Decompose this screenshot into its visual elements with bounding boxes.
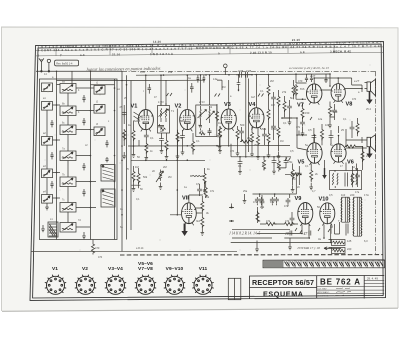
tuner block — [40, 71, 132, 251]
grid resistors horizontal — [265, 222, 277, 225]
svg-text:0,1: 0,1 — [136, 198, 140, 201]
speaker LS2 ground arrow — [366, 147, 372, 158]
resistor — [165, 139, 168, 151]
tube V9 — [298, 202, 313, 225]
capacitor — [122, 111, 127, 117]
wire into VII — [170, 160, 203, 215]
svg-text:3.MECH. R.42: 3.MECH. R.42 — [330, 49, 351, 53]
extra wires right of V10 — [335, 222, 340, 234]
svg-text:J 14 K 8.2 R 14. 14. 5: J 14 K 8.2 R 14. 14. 5 — [229, 232, 261, 236]
ground — [256, 153, 260, 160]
svg-text:2M: 2M — [270, 79, 274, 83]
ground — [159, 183, 163, 190]
svg-text:125: 125 — [347, 239, 352, 243]
wave switch wafer A — [101, 165, 115, 182]
V3 V4 coupling — [218, 126, 252, 156]
border frame outer — [30, 42, 386, 301]
ground — [122, 152, 126, 159]
trimmer T5 — [94, 86, 105, 95]
trimmer T6 — [94, 105, 105, 114]
mains selector winding — [332, 240, 346, 254]
svg-text:V10: V10 — [319, 197, 329, 203]
capacitor — [180, 134, 185, 140]
resistor — [218, 126, 221, 138]
input terminal dots — [231, 207, 233, 209]
ground — [238, 168, 242, 175]
svg-text:0,1: 0,1 — [305, 164, 309, 168]
ground — [291, 186, 295, 193]
band coil box row 1 — [60, 84, 76, 94]
band coil box row 6 — [60, 203, 76, 213]
tuner bus vertical 1 — [56, 79, 58, 240]
trimmer T7 — [94, 127, 105, 136]
resistor — [267, 108, 270, 120]
svg-text:47a: 47a — [270, 201, 275, 204]
AVC bus 2 — [128, 145, 290, 147]
ground — [165, 153, 169, 160]
capacitor — [329, 134, 334, 140]
svg-text:47k: 47k — [178, 136, 183, 140]
svg-text:12a: 12a — [318, 118, 323, 121]
svg-text:1M: 1M — [271, 103, 275, 107]
ground — [328, 121, 332, 128]
V4 output components — [250, 127, 267, 159]
svg-text:20k: 20k — [205, 195, 210, 199]
border frame inner — [33, 44, 384, 298]
svg-text:6,3: 6,3 — [364, 239, 368, 243]
svg-text:2ª FI: 2ª FI — [198, 100, 205, 104]
svg-text:17m: 17m — [364, 193, 369, 197]
signature squiggles — [334, 288, 351, 296]
ground — [243, 197, 247, 204]
V9 V10 wires down — [257, 224, 331, 238]
V5 V6 top components — [299, 131, 307, 136]
tube V10 — [320, 203, 335, 226]
chassis dash-dot boundary top — [31, 71, 383, 255]
heater wires — [329, 224, 349, 248]
junction dots pass — [121, 73, 363, 243]
density pass: grid risers and small parts — [148, 74, 365, 252]
resistor — [123, 129, 126, 141]
svg-text:4a7: 4a7 — [251, 96, 256, 99]
under V3 parts — [215, 110, 218, 122]
value 18 47 with caps — [290, 231, 311, 236]
svg-text:1M: 1M — [262, 164, 265, 167]
capacitor — [270, 197, 275, 203]
wire bus to V7 grid — [296, 74, 332, 90]
value labels small italic — [158, 69, 360, 104]
under can1 parts — [159, 137, 164, 143]
svg-text:470: 470 — [230, 150, 235, 153]
svg-text:25k: 25k — [260, 205, 265, 209]
svg-text:50k: 50k — [262, 127, 267, 131]
capacitor — [297, 171, 302, 177]
capacitor — [274, 197, 279, 203]
V6 right parts — [361, 150, 364, 162]
svg-text:110: 110 — [341, 193, 346, 197]
ground — [236, 149, 240, 156]
volume control cluster — [282, 80, 295, 125]
svg-text:V9–V10: V9–V10 — [166, 266, 184, 272]
resistor under tuner — [91, 240, 94, 255]
ground — [309, 183, 313, 190]
svg-text:ESQUEMA: ESQUEMA — [263, 289, 303, 298]
resistor — [345, 145, 357, 148]
resistor — [201, 216, 204, 228]
ground — [41, 225, 45, 232]
svg-text:0,1: 0,1 — [238, 165, 242, 168]
wire V1 plate up — [146, 75, 257, 109]
resistor — [250, 131, 253, 143]
ground — [218, 143, 222, 150]
speaker LS1 ground arrow — [366, 92, 372, 105]
top revision table rule — [36, 47, 383, 51]
svg-text:3k3: 3k3 — [196, 220, 201, 223]
resistor — [283, 100, 286, 112]
capacitor — [239, 129, 244, 135]
tuner grounds — [45, 203, 49, 210]
svg-text:0,05: 0,05 — [140, 71, 145, 74]
resistor — [267, 84, 270, 96]
capacitor — [286, 198, 291, 204]
svg-text:APROBADO: APROBADO — [318, 291, 330, 294]
slash marks 1uF — [167, 93, 313, 161]
ground — [301, 129, 305, 136]
svg-text:1M: 1M — [292, 178, 295, 181]
svg-text:150: 150 — [333, 110, 338, 114]
B+ rails between V3 and V4 — [245, 74, 248, 158]
svg-text:25.4: 25.4 — [366, 155, 371, 158]
socket V5-V8 — [135, 275, 156, 295]
driver transformer box — [330, 171, 362, 190]
svg-text:6BA6: 6BA6 — [180, 120, 187, 123]
resistor — [320, 128, 323, 140]
ground — [250, 150, 254, 157]
VII ground arrow — [181, 224, 187, 237]
svg-text:V7: V7 — [297, 103, 304, 109]
coupling coil — [193, 175, 202, 176]
ground — [82, 232, 86, 239]
svg-text:a.4: a.4 — [80, 53, 85, 57]
capacitor — [217, 133, 222, 139]
svg-text:6V6: 6V6 — [300, 88, 305, 91]
annotation arrow left — [324, 247, 341, 250]
svg-text:BE 762 A: BE 762 A — [320, 278, 360, 287]
ground — [267, 151, 271, 158]
V4 to V5 coupling wire — [282, 118, 307, 150]
svg-text:27k: 27k — [282, 90, 287, 94]
riser wires right of tuner — [122, 71, 131, 251]
trimmer T2 — [42, 137, 53, 146]
right section wires — [229, 74, 363, 254]
band coil box row 4 — [60, 151, 76, 161]
resistor — [310, 169, 313, 181]
resistor — [176, 131, 179, 143]
cathode R V7 — [301, 107, 304, 119]
svg-text:V3: V3 — [224, 102, 231, 108]
resistor — [267, 132, 270, 144]
svg-text:COMPROB.: COMPROB. — [318, 296, 330, 298]
tube V1 — [138, 110, 153, 132]
socket V1 — [45, 275, 66, 295]
band coil box row 2 — [60, 106, 76, 116]
svg-text:10k: 10k — [325, 123, 330, 127]
ground — [201, 229, 205, 236]
socket V2 — [75, 275, 96, 295]
svg-text:150: 150 — [305, 111, 310, 115]
antenna symbol — [36, 58, 122, 72]
cap to ground — [238, 160, 243, 166]
power transformer primary winding — [341, 198, 350, 223]
wire top V5 V6 — [315, 126, 339, 145]
tube V3 — [221, 109, 236, 131]
svg-text:V11: V11 — [199, 266, 208, 272]
svg-text:V6: V6 — [347, 160, 354, 166]
IF can T1 — [158, 103, 170, 133]
svg-text:47k: 47k — [285, 219, 290, 223]
scattered value labels — [95, 79, 369, 251]
svg-text:V7–V8: V7–V8 — [138, 266, 153, 272]
trimmer T3 — [42, 169, 53, 178]
ground — [176, 152, 180, 159]
ground arrow — [322, 168, 327, 179]
svg-text:1M: 1M — [218, 121, 222, 125]
cap near V2 grid — [190, 83, 194, 93]
capacitor — [144, 133, 149, 139]
detector resistor chain 1 — [267, 74, 281, 159]
grid caps row — [255, 197, 260, 203]
socket V3-V4 — [105, 275, 126, 295]
resistor — [191, 140, 194, 152]
svg-text:470k: 470k — [287, 161, 293, 164]
svg-text:V5: V5 — [298, 160, 305, 166]
svg-text:0,1: 0,1 — [150, 136, 154, 140]
wire from antenna to set — [36, 70, 122, 72]
svg-text:V3–V4: V3–V4 — [108, 266, 123, 272]
svg-text:220: 220 — [347, 247, 352, 251]
pot to VII line — [290, 173, 302, 176]
svg-text:47a: 47a — [284, 205, 289, 208]
lower bus wires — [231, 225, 331, 243]
bottom wire left — [31, 250, 237, 252]
svg-text:0,5: 0,5 — [196, 182, 200, 186]
resistor — [132, 129, 135, 141]
chassis dash-dot boundary right — [375, 71, 377, 255]
main circuit wires — [122, 74, 330, 161]
darken transformer windings — [342, 197, 362, 236]
wire V7 V8 plates to output — [314, 78, 362, 85]
resistor — [277, 95, 280, 107]
tuner outer box — [40, 79, 118, 240]
ground — [132, 151, 136, 158]
screen bus — [131, 79, 205, 81]
svg-text:Juntar las conexiones en punto: Juntar las conexiones en puntos indicado… — [86, 66, 161, 72]
svg-text:V2: V2 — [175, 104, 182, 110]
trimmer arrowheads darkened — [48, 85, 103, 227]
tube V4 — [249, 108, 264, 130]
svg-text:0,05: 0,05 — [238, 69, 244, 73]
trimmer T4 — [42, 195, 53, 204]
mid area parts under V1/V2 — [132, 166, 207, 193]
ground — [277, 152, 281, 159]
resistor — [262, 159, 265, 171]
ground — [288, 118, 292, 125]
ground — [145, 154, 149, 161]
svg-text:ULT. REV: ULT. REV — [318, 288, 328, 290]
svg-text:0,1: 0,1 — [283, 121, 287, 125]
resistor to V7 — [294, 84, 297, 96]
svg-text:Rev. 6a/50 1-4: Rev. 6a/50 1-4 — [56, 62, 73, 65]
svg-text:25a: 25a — [168, 71, 173, 74]
ground — [181, 148, 185, 155]
extra tiny labels pass — [44, 71, 371, 259]
risers can1 — [161, 75, 210, 160]
pot with arrow — [156, 170, 164, 183]
svg-text:47a: 47a — [253, 201, 258, 204]
resistor — [145, 142, 148, 154]
svg-text:a 4: a 4 — [300, 50, 305, 54]
capacitor — [197, 187, 202, 193]
band coil box row 5 — [60, 177, 76, 187]
speaker LS1 — [367, 79, 376, 96]
test point lollipop — [224, 64, 228, 75]
svg-text:470: 470 — [298, 79, 303, 83]
ferrite antenna coil — [48, 222, 58, 237]
tuner bus vertical 2 — [90, 79, 92, 240]
capacitor — [271, 124, 276, 130]
socket V9-V10 — [164, 275, 185, 295]
svg-text:6: 6 — [38, 54, 40, 58]
svg-text:0,5: 0,5 — [290, 150, 294, 153]
row link wires — [53, 88, 97, 227]
table divider ticks — [56, 43, 334, 55]
heater stubs below V9 V10 — [295, 228, 330, 233]
svg-text:0,1: 0,1 — [260, 90, 264, 93]
stub above V3 — [217, 75, 240, 92]
tube V6 — [331, 144, 346, 164]
V5 V6 underside — [291, 168, 294, 180]
junction dots — [56, 80, 128, 209]
chassis dash-dot boundary bottom — [120, 254, 383, 256]
resistor — [351, 172, 354, 184]
svg-text:a 4T: a 4T — [310, 74, 316, 78]
svg-text:25a: 25a — [243, 190, 248, 193]
scan speckle — [45, 65, 371, 251]
IF can T2 — [196, 105, 217, 137]
svg-text:470: 470 — [98, 256, 103, 259]
wave switch wafer B — [101, 189, 115, 207]
svg-text:V8: V8 — [346, 102, 353, 108]
svg-text:a: a — [218, 51, 220, 55]
resistor — [204, 186, 207, 198]
resistor — [240, 140, 252, 143]
svg-text:V2: V2 — [82, 266, 88, 272]
capacitor — [287, 104, 292, 110]
svg-text:1M: 1M — [280, 140, 283, 143]
tube V5 — [307, 143, 322, 165]
cluster above can2 — [197, 75, 206, 83]
resistor — [292, 84, 295, 96]
svg-text:2.40.13.5 R.10: 2.40.13.5 R.10 — [250, 51, 272, 55]
cap — [272, 159, 277, 165]
cap — [284, 159, 289, 165]
resistor — [277, 160, 280, 172]
resistor — [137, 172, 140, 184]
tube V7 — [306, 84, 322, 105]
svg-text:470: 470 — [95, 246, 100, 250]
capacitor — [271, 95, 276, 101]
coupling caps on bus — [236, 72, 253, 78]
top revision table rule 2 — [36, 52, 383, 56]
title block — [250, 275, 385, 298]
svg-text:2M: 2M — [163, 165, 167, 169]
terminal strip — [263, 260, 385, 268]
capacitor — [332, 108, 337, 114]
resistor — [256, 134, 259, 146]
band coil box row 7 — [60, 223, 76, 233]
capacitor — [262, 132, 267, 138]
svg-text:RECEPTOR 56/57: RECEPTOR 56/57 — [252, 278, 314, 287]
svg-text:29. 4. 49: 29. 4. 49 — [367, 277, 378, 281]
tuner antenna drops — [56, 71, 92, 84]
svg-text:470: 470 — [352, 98, 357, 101]
svg-text:1M: 1M — [222, 86, 225, 89]
resistor — [256, 211, 259, 223]
resistor — [203, 172, 206, 184]
grid feed wire — [253, 194, 297, 198]
resistor — [132, 170, 135, 182]
svg-text:14 20: 14 20 — [153, 40, 161, 44]
resistor — [277, 126, 280, 138]
tuner internal verticals — [47, 93, 68, 223]
capacitor — [350, 125, 355, 131]
resistor — [356, 122, 359, 134]
svg-text:4,7: 4,7 — [312, 190, 316, 193]
tuner bus vertical 3 — [114, 79, 116, 240]
stamp box — [55, 60, 79, 66]
capacitor — [312, 134, 317, 140]
grid cap V1 — [148, 84, 152, 94]
svg-text:V1: V1 — [52, 266, 58, 272]
cathode R V8 — [328, 105, 331, 117]
band top wire — [231, 156, 291, 158]
capacitor — [260, 199, 265, 205]
detector output band — [231, 144, 302, 206]
svg-text:a R.14: a R.14 — [136, 247, 144, 250]
tuner top wires — [57, 81, 132, 85]
cap at V9 grid — [290, 216, 295, 222]
extra grounds bottom — [255, 245, 259, 252]
ground — [288, 243, 292, 250]
capacitor — [300, 120, 305, 126]
tube V2 — [180, 109, 195, 131]
resistor — [283, 222, 295, 225]
speaker LS2 feed wires — [346, 83, 367, 149]
svg-text:18: 18 — [285, 232, 289, 236]
svg-text:2M: 2M — [168, 176, 171, 179]
svg-text:V1: V1 — [131, 104, 138, 110]
ground — [160, 147, 164, 154]
tube socket row — [45, 275, 214, 295]
svg-text:JUNTAR 17 y 18: JUNTAR 17 y 18 — [297, 246, 320, 250]
svg-text:V9: V9 — [295, 196, 302, 202]
box left of title block — [228, 278, 241, 299]
svg-text:a 2T: a 2T — [354, 79, 360, 83]
svg-text:50k: 50k — [143, 175, 148, 179]
tube VII — [182, 203, 197, 226]
trimmer T1 — [42, 102, 53, 111]
trimmer T0 — [42, 83, 53, 92]
